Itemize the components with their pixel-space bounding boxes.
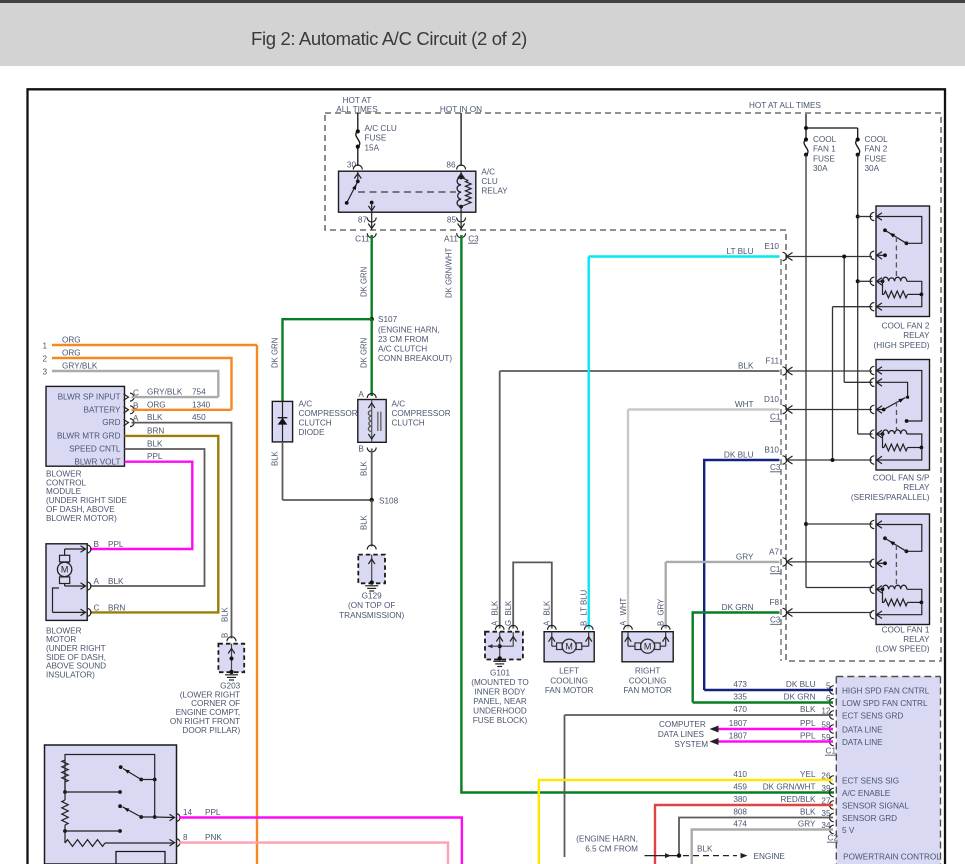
svg-text:TRANSMISSION): TRANSMISSION)	[339, 611, 404, 620]
svg-text:BLK: BLK	[504, 600, 513, 616]
svg-text:ORG: ORG	[62, 349, 81, 358]
svg-text:CLU: CLU	[481, 177, 497, 186]
svg-text:DK GRN/WHT: DK GRN/WHT	[763, 783, 816, 792]
svg-text:ENGINE COMPT,: ENGINE COMPT,	[176, 708, 241, 717]
svg-text:COOL FAN S/P: COOL FAN S/P	[873, 474, 930, 483]
svg-text:SIDE OF DASH,: SIDE OF DASH,	[46, 653, 106, 662]
svg-text:CONN BREAKOUT): CONN BREAKOUT)	[378, 354, 452, 363]
svg-text:(MOUNTED TO: (MOUNTED TO	[471, 678, 528, 687]
svg-text:(UNDER RIGHT SIDE: (UNDER RIGHT SIDE	[46, 496, 127, 505]
svg-text:(ON TOP OF: (ON TOP OF	[348, 601, 395, 610]
svg-text:473: 473	[733, 680, 747, 689]
svg-text:808: 808	[733, 808, 747, 817]
svg-text:S108: S108	[379, 496, 399, 505]
svg-text:E10: E10	[764, 242, 779, 251]
svg-text:(UNDER RIGHT: (UNDER RIGHT	[46, 644, 106, 653]
svg-text:6.5 CM FROM: 6.5 CM FROM	[585, 845, 638, 854]
svg-text:COOLING: COOLING	[629, 676, 667, 685]
svg-text:M: M	[61, 565, 69, 575]
svg-text:FAN MOTOR: FAN MOTOR	[545, 686, 594, 695]
svg-text:ALL TIMES: ALL TIMES	[336, 105, 378, 114]
svg-text:459: 459	[733, 783, 747, 792]
svg-text:CONTROL: CONTROL	[46, 478, 86, 487]
svg-text:BLK: BLK	[360, 514, 369, 530]
svg-text:GRY: GRY	[657, 598, 666, 616]
svg-text:3: 3	[42, 368, 47, 377]
svg-text:(ENGINE HARN,: (ENGINE HARN,	[378, 325, 440, 334]
svg-text:BLK: BLK	[147, 413, 163, 422]
svg-text:2: 2	[42, 355, 47, 364]
svg-text:POWERTRAIN CONTROL: POWERTRAIN CONTROL	[843, 853, 941, 862]
svg-text:LOW SPD FAN CNTRL: LOW SPD FAN CNTRL	[842, 699, 928, 708]
svg-text:ON RIGHT FRONT: ON RIGHT FRONT	[170, 717, 240, 726]
svg-text:SENSOR SIGNAL: SENSOR SIGNAL	[842, 801, 909, 810]
svg-text:BLK: BLK	[800, 808, 816, 817]
svg-text:M: M	[644, 641, 652, 651]
svg-text:HIGH SPD FAN CNTRL: HIGH SPD FAN CNTRL	[842, 686, 930, 695]
svg-text:DOOR PILLAR): DOOR PILLAR)	[182, 726, 240, 735]
svg-text:86: 86	[446, 161, 456, 170]
svg-text:G129: G129	[362, 592, 382, 601]
svg-text:335: 335	[733, 693, 747, 702]
svg-text:DK GRN: DK GRN	[722, 603, 754, 612]
svg-text:ECT SENS SIG: ECT SENS SIG	[842, 776, 899, 785]
svg-text:470: 470	[733, 705, 747, 714]
svg-text:5 V: 5 V	[842, 826, 855, 835]
svg-text:UNDERHOOD: UNDERHOOD	[473, 707, 527, 716]
svg-text:CLUTCH: CLUTCH	[392, 419, 425, 428]
svg-text:15A: 15A	[365, 143, 380, 152]
svg-text:30A: 30A	[813, 164, 828, 173]
svg-text:FAN 1: FAN 1	[813, 145, 836, 154]
svg-text:GRY: GRY	[736, 552, 754, 561]
svg-text:FUSE BLOCK): FUSE BLOCK)	[473, 716, 528, 725]
svg-text:RELAY: RELAY	[903, 483, 930, 492]
svg-text:COMPRESSOR: COMPRESSOR	[392, 409, 451, 418]
svg-text:INNER BODY: INNER BODY	[475, 688, 526, 697]
svg-text:COOL FAN 1: COOL FAN 1	[882, 625, 930, 634]
svg-text:BLK: BLK	[697, 845, 713, 854]
svg-text:DIODE: DIODE	[299, 428, 325, 437]
svg-text:FUSE: FUSE	[365, 134, 387, 143]
svg-text:GRY: GRY	[798, 820, 816, 829]
svg-text:DK BLU: DK BLU	[724, 451, 754, 460]
svg-text:RELAY: RELAY	[903, 635, 930, 644]
svg-text:14: 14	[183, 808, 193, 817]
svg-text:G101: G101	[490, 669, 510, 678]
svg-text:PPL: PPL	[108, 540, 124, 549]
svg-text:(LOWER RIGHT: (LOWER RIGHT	[180, 690, 241, 699]
svg-text:(SERIES/PARALLEL): (SERIES/PARALLEL)	[851, 493, 930, 502]
svg-text:F11: F11	[766, 357, 780, 366]
svg-text:ORG: ORG	[62, 336, 81, 345]
svg-text:PNK: PNK	[205, 833, 222, 842]
svg-text:BLWR MTR GRD: BLWR MTR GRD	[57, 432, 121, 441]
svg-text:BLK: BLK	[800, 705, 816, 714]
svg-text:(ENGINE HARN,: (ENGINE HARN,	[576, 835, 638, 844]
svg-text:SENSOR GRD: SENSOR GRD	[842, 814, 897, 823]
svg-text:C3: C3	[468, 235, 479, 244]
svg-text:1: 1	[42, 342, 47, 351]
svg-text:RED/BLK: RED/BLK	[780, 795, 816, 804]
svg-text:S107: S107	[378, 315, 398, 324]
svg-text:ORG: ORG	[147, 400, 166, 409]
svg-text:BLWR VOLT: BLWR VOLT	[74, 457, 120, 466]
svg-text:D10: D10	[764, 395, 779, 404]
svg-text:INSULATOR): INSULATOR)	[46, 671, 95, 680]
svg-text:BLK: BLK	[271, 450, 280, 466]
svg-text:DK GRN/WHT: DK GRN/WHT	[444, 248, 453, 298]
svg-text:M: M	[565, 641, 573, 651]
svg-text:SYSTEM: SYSTEM	[674, 740, 708, 749]
svg-text:PPL: PPL	[800, 732, 816, 741]
svg-text:FUSE: FUSE	[813, 154, 835, 163]
svg-text:474: 474	[733, 820, 747, 829]
svg-text:(HIGH SPEED): (HIGH SPEED)	[874, 341, 930, 350]
svg-text:C1: C1	[826, 747, 837, 756]
svg-text:OF DASH, ABOVE: OF DASH, ABOVE	[46, 505, 115, 514]
svg-text:FUSE: FUSE	[865, 154, 887, 163]
svg-text:1807: 1807	[729, 732, 748, 741]
svg-text:A/C: A/C	[392, 400, 406, 409]
svg-text:ECT SENS GRD: ECT SENS GRD	[842, 711, 903, 720]
svg-text:WHT: WHT	[619, 598, 628, 616]
svg-text:A: A	[358, 390, 364, 399]
svg-text:DATA LINE: DATA LINE	[842, 725, 883, 734]
svg-text:GRD: GRD	[102, 418, 120, 427]
svg-text:SPEED CNTL: SPEED CNTL	[69, 445, 121, 454]
svg-text:C2: C2	[828, 834, 839, 843]
svg-text:HOT AT ALL TIMES: HOT AT ALL TIMES	[749, 101, 821, 110]
svg-text:RELAY: RELAY	[481, 187, 508, 196]
svg-text:DK BLU: DK BLU	[786, 680, 816, 689]
svg-text:COOL FAN 2: COOL FAN 2	[882, 322, 930, 331]
svg-text:LT BLU: LT BLU	[580, 589, 589, 615]
svg-text:COOL: COOL	[865, 135, 889, 144]
svg-text:A/C CLU: A/C CLU	[365, 124, 397, 133]
svg-text:PPL: PPL	[205, 808, 221, 817]
svg-text:FAN 2: FAN 2	[865, 145, 888, 154]
svg-text:BLOWER: BLOWER	[46, 470, 82, 479]
svg-text:RIGHT: RIGHT	[635, 667, 660, 676]
svg-text:WHT: WHT	[735, 400, 754, 409]
svg-text:FAN MOTOR: FAN MOTOR	[623, 686, 672, 695]
svg-text:BLK: BLK	[221, 606, 230, 622]
svg-text:DK GRN: DK GRN	[360, 267, 369, 297]
svg-text:BLOWER MOTOR): BLOWER MOTOR)	[46, 514, 117, 523]
svg-text:A: A	[94, 577, 100, 586]
svg-text:B: B	[358, 445, 364, 454]
svg-text:PPL: PPL	[147, 452, 163, 461]
svg-text:410: 410	[733, 770, 747, 779]
svg-text:HOT IN ON: HOT IN ON	[440, 105, 482, 114]
svg-text:PANEL, NEAR: PANEL, NEAR	[473, 697, 527, 706]
svg-text:COOL: COOL	[813, 135, 837, 144]
svg-text:87: 87	[358, 216, 368, 225]
svg-text:754: 754	[192, 388, 206, 397]
svg-text:CORNER OF: CORNER OF	[191, 699, 240, 708]
svg-text:BLK: BLK	[738, 362, 754, 371]
svg-text:C11: C11	[355, 235, 370, 244]
svg-text:G203: G203	[220, 681, 240, 690]
svg-text:450: 450	[192, 413, 206, 422]
svg-text:COMPUTER: COMPUTER	[659, 720, 706, 729]
svg-text:A11: A11	[444, 235, 458, 244]
svg-text:A/C: A/C	[481, 168, 495, 177]
svg-text:C: C	[94, 603, 100, 612]
svg-text:30: 30	[347, 161, 357, 170]
svg-text:COMPRESSOR: COMPRESSOR	[299, 409, 358, 418]
svg-text:MODULE: MODULE	[46, 487, 82, 496]
svg-text:DATA LINE: DATA LINE	[842, 738, 883, 747]
svg-text:CLUTCH: CLUTCH	[299, 419, 332, 428]
svg-text:F8: F8	[769, 598, 779, 607]
svg-text:BLK: BLK	[491, 600, 500, 616]
svg-text:LEFT: LEFT	[559, 667, 579, 676]
svg-text:BLWR SP INPUT: BLWR SP INPUT	[58, 393, 121, 402]
svg-text:BRN: BRN	[108, 603, 125, 612]
svg-text:(LOW SPEED): (LOW SPEED)	[875, 645, 929, 654]
svg-text:BLK: BLK	[360, 460, 369, 476]
svg-text:1340: 1340	[192, 400, 211, 409]
svg-text:BLK: BLK	[543, 600, 552, 616]
svg-text:C1: C1	[770, 565, 781, 574]
svg-text:23 CM FROM: 23 CM FROM	[378, 335, 429, 344]
svg-text:DK GRN: DK GRN	[784, 693, 816, 702]
svg-text:B: B	[221, 633, 230, 638]
svg-text:C1: C1	[770, 413, 781, 422]
svg-text:A/C: A/C	[299, 400, 313, 409]
svg-text:BLK: BLK	[108, 577, 124, 586]
svg-text:GRY/BLK: GRY/BLK	[147, 388, 183, 397]
svg-text:BATTERY: BATTERY	[83, 405, 121, 414]
svg-text:LT BLU: LT BLU	[727, 247, 754, 256]
svg-text:BLOWER: BLOWER	[46, 626, 82, 635]
svg-text:1807: 1807	[729, 719, 748, 728]
svg-text:PPL: PPL	[800, 719, 816, 728]
svg-text:C3: C3	[770, 463, 781, 472]
svg-text:YEL: YEL	[800, 770, 816, 779]
svg-text:B: B	[94, 540, 100, 549]
svg-text:85: 85	[447, 216, 457, 225]
svg-text:B10: B10	[764, 446, 779, 455]
svg-text:MOTOR: MOTOR	[46, 635, 76, 644]
svg-text:BRN: BRN	[147, 426, 164, 435]
svg-text:DK GRN: DK GRN	[271, 338, 280, 368]
svg-text:A/C CLUTCH: A/C CLUTCH	[378, 345, 427, 354]
svg-text:ENGINE: ENGINE	[754, 852, 786, 861]
svg-text:DATA LINES: DATA LINES	[658, 730, 705, 739]
svg-text:30A: 30A	[865, 164, 880, 173]
svg-text:A/C ENABLE: A/C ENABLE	[842, 789, 891, 798]
svg-text:BLK: BLK	[147, 439, 163, 448]
svg-text:8: 8	[183, 833, 188, 842]
svg-text:ABOVE SOUND: ABOVE SOUND	[46, 662, 106, 671]
svg-text:RELAY: RELAY	[903, 331, 930, 340]
svg-text:HOT AT: HOT AT	[343, 96, 372, 105]
svg-text:GRY/BLK: GRY/BLK	[62, 362, 98, 371]
svg-text:C3: C3	[770, 616, 781, 625]
svg-text:A7: A7	[769, 547, 779, 556]
svg-text:COOLING: COOLING	[550, 676, 588, 685]
svg-text:380: 380	[733, 795, 747, 804]
svg-text:DK GRN: DK GRN	[360, 338, 369, 368]
